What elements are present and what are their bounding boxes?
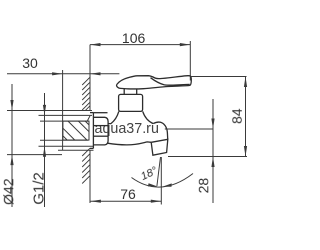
ext line flange face [62, 70, 64, 111]
dim 28 vertical [212, 99, 214, 203]
dim 30 line [7, 73, 119, 75]
pipe bottom line L5 [39, 145, 94, 147]
hatched shank box [63, 116, 90, 140]
dim 84 arrows [244, 77, 247, 157]
handle inner ridge [151, 78, 190, 86]
bore top line L3 [40, 120, 89, 122]
dim 84 vertical [245, 77, 247, 157]
svg-text:Ø42: Ø42 [1, 178, 17, 205]
flange top line L1 [7, 110, 92, 112]
svg-text:84: 84 [229, 108, 245, 124]
svg-text:G1/2: G1/2 [30, 172, 47, 205]
svg-text:aqua37.ru: aqua37.ru [95, 121, 159, 137]
flange front face [62, 111, 64, 151]
angle tilted line [157, 157, 161, 186]
angle arc [132, 174, 194, 188]
pipe top line L2 [39, 114, 93, 116]
handle lever [117, 76, 192, 89]
flange bottom line L6 [58, 149, 94, 151]
dia42 bottom ref L7 [7, 154, 62, 156]
ext line right of 106 [189, 41, 191, 81]
nut facet line top [94, 125, 109, 127]
svg-text:106: 106 [122, 30, 146, 46]
bell flare right [143, 111, 154, 123]
dim 30 arrows [52, 72, 100, 75]
handle top level ext line [191, 76, 247, 78]
dia42 arrows [10, 100, 13, 165]
collar behind nut [92, 113, 94, 149]
bore bottom line L4 [40, 139, 89, 141]
G1/2 arrows [43, 105, 46, 157]
angle vertical ref line [160, 157, 162, 205]
nut facet line bottom [94, 135, 109, 137]
bell flare left [108, 111, 119, 123]
dim 106 arrows [90, 43, 190, 46]
angle arc arrows [148, 183, 172, 187]
svg-text:30: 30 [22, 55, 38, 71]
body bottom ext line right [165, 128, 213, 130]
svg-text:18°: 18° [139, 165, 160, 183]
hex nut [94, 117, 109, 145]
outlet level ext line [168, 156, 247, 158]
svg-text:76: 76 [120, 186, 136, 202]
dim 76 arrows [90, 200, 161, 203]
wall line lower [89, 150, 91, 203]
dia42 dim vertical [11, 84, 13, 207]
svg-text:28: 28 [195, 178, 211, 194]
body end cap and spout outer bend [153, 122, 168, 139]
G1/2 dim vertical [44, 93, 46, 207]
dim 28 arrows [211, 119, 214, 168]
handle stem [123, 89, 125, 94]
wall hatching upper [82, 77, 90, 110]
dim 106 line [90, 44, 190, 46]
dim 76 line [90, 200, 161, 202]
spout nozzle [151, 139, 168, 155]
wall line upper [89, 45, 91, 111]
body bottom edge [108, 142, 152, 145]
wall hatching lower [82, 148, 90, 183]
shank top edge [94, 112, 108, 114]
bonnet cap [119, 94, 143, 111]
